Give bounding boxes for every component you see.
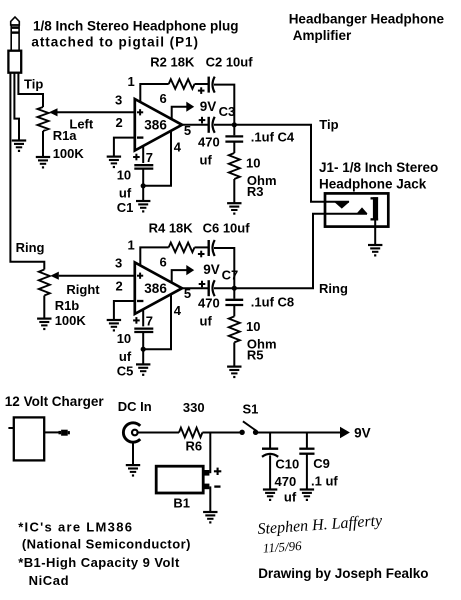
svg-text:attached to pigtail (P1): attached to pigtail (P1) bbox=[31, 35, 199, 50]
svg-text:470: 470 bbox=[198, 296, 220, 311]
resistor R6 330 bbox=[179, 428, 202, 438]
svg-text:4: 4 bbox=[174, 140, 182, 155]
svg-text:9V: 9V bbox=[203, 262, 220, 277]
svg-text:10: 10 bbox=[246, 319, 260, 334]
svg-text:R4 18K: R4 18K bbox=[149, 221, 194, 236]
wire shunt cap to resistor bbox=[233, 142, 235, 153]
wire resistor to cap bbox=[195, 246, 208, 248]
capacitor C2 10uf bbox=[209, 77, 215, 93]
wire battery positive branch bbox=[209, 433, 211, 474]
ground (R3) bbox=[227, 203, 241, 215]
wire DC In to R6 bbox=[137, 432, 179, 434]
wire to filter cap C10 bbox=[269, 433, 271, 448]
svg-text:uf: uf bbox=[284, 490, 297, 505]
wire pin 6 to 9V arrow bbox=[172, 107, 187, 120]
capacitor C4 .1uf bbox=[225, 136, 243, 141]
svg-text:J1- 1/8 Inch Stereo: J1- 1/8 Inch Stereo bbox=[319, 160, 438, 175]
wire wiper to pin 3 (Left) bbox=[58, 111, 135, 113]
svg-text:Amplifier: Amplifier bbox=[293, 28, 352, 43]
wire bypass cap to ground node bbox=[142, 169, 144, 201]
svg-text:.1uf C4: .1uf C4 bbox=[251, 130, 295, 145]
wire pin 4 to junction bbox=[143, 131, 171, 186]
svg-text:4: 4 bbox=[174, 303, 182, 318]
wire output cap to node bbox=[214, 287, 234, 289]
label battery + terminal bbox=[214, 468, 221, 475]
wire R5 to ground bbox=[233, 342, 235, 366]
svg-text:S1: S1 bbox=[243, 402, 259, 417]
wire Ring output to jack bbox=[234, 214, 367, 288]
svg-text:5: 5 bbox=[184, 286, 191, 301]
wire resistor to cap bbox=[195, 83, 208, 85]
svg-text:R3: R3 bbox=[247, 184, 264, 199]
wire R1a to ground bbox=[42, 131, 44, 157]
svg-text:386: 386 bbox=[144, 118, 167, 133]
ground (R5) bbox=[227, 367, 241, 379]
svg-text:6: 6 bbox=[160, 254, 167, 269]
wire jack sleeve to ground bbox=[374, 221, 376, 245]
svg-text:NiCad: NiCad bbox=[29, 573, 70, 588]
svg-text:Ring: Ring bbox=[16, 240, 45, 255]
wire plug tip to R1a bbox=[18, 73, 43, 107]
ground (jack) bbox=[368, 245, 382, 257]
svg-text:Tip: Tip bbox=[319, 117, 338, 132]
svg-text:uf: uf bbox=[200, 314, 213, 329]
svg-text:1: 1 bbox=[128, 237, 135, 252]
node output junction bbox=[232, 122, 237, 127]
label 470 uf (C7) bbox=[198, 296, 220, 329]
svg-text:1/8 Inch Stereo Headphone plug: 1/8 Inch Stereo Headphone plug bbox=[33, 18, 239, 33]
switch S1 bbox=[239, 421, 258, 435]
svg-text:C5: C5 bbox=[117, 363, 134, 378]
wire pin 6 to 9V arrow bbox=[172, 270, 187, 283]
capacitor C7 470uf bbox=[209, 280, 215, 296]
wire pin 5 output bbox=[182, 124, 208, 126]
ground (C10) bbox=[263, 490, 277, 502]
wire pin 4 to junction bbox=[143, 294, 171, 349]
R1b wiper arrow bbox=[50, 272, 59, 280]
svg-text:uf: uf bbox=[119, 349, 132, 364]
label R4 18K C6 10uf bbox=[149, 221, 251, 236]
wire wiper to pin 3 (Right) bbox=[59, 275, 135, 277]
svg-text:7: 7 bbox=[146, 313, 153, 328]
svg-text:2: 2 bbox=[116, 115, 123, 130]
wire feedback cap to output node bbox=[214, 248, 234, 288]
label 470 uf (C3) bbox=[198, 135, 220, 168]
svg-text:330: 330 bbox=[183, 400, 205, 415]
R1a wiper arrow bbox=[49, 108, 58, 116]
svg-text:R2 18K: R2 18K bbox=[150, 55, 195, 70]
wire Tip output to jack bbox=[234, 125, 349, 202]
svg-text:11/5/96: 11/5/96 bbox=[262, 538, 302, 556]
svg-text:Tip: Tip bbox=[24, 77, 43, 92]
wire feedback cap to output node bbox=[214, 85, 234, 125]
svg-text:(National Semiconductor): (National Semiconductor) bbox=[22, 537, 191, 552]
svg-text:Drawing by Joseph Fealko: Drawing by Joseph Fealko bbox=[258, 566, 428, 581]
wire pin 7 bbox=[142, 309, 144, 326]
jack sleeve contact bar bbox=[371, 197, 379, 220]
label R2 18K C2 10uf bbox=[150, 55, 253, 70]
svg-text:10: 10 bbox=[117, 168, 131, 183]
svg-text:100K: 100K bbox=[53, 146, 85, 161]
DC In connector J2 bbox=[123, 423, 140, 442]
capacitor C10 470uf bbox=[262, 449, 278, 457]
ground (bypass cap C5) bbox=[136, 364, 150, 376]
wire R3 to ground bbox=[233, 179, 235, 203]
resistor R3 10 Ohm bbox=[229, 153, 240, 179]
label C9 .1 uf bbox=[311, 456, 338, 489]
ground (R1a) bbox=[36, 157, 50, 169]
wire bypass cap to ground node bbox=[142, 332, 144, 364]
svg-text:R5: R5 bbox=[247, 347, 264, 362]
svg-text:.1 uf: .1 uf bbox=[311, 473, 338, 488]
jack ring contact bbox=[356, 207, 367, 213]
resistor R5 10 Ohm bbox=[229, 316, 240, 342]
resistor R4 18K bbox=[169, 243, 195, 253]
svg-text:386: 386 bbox=[144, 281, 167, 296]
op-amp U2 (LM386) right channel bbox=[135, 262, 182, 314]
label C10 470 uf bbox=[275, 456, 300, 504]
wire node to shunt cap bbox=[233, 288, 235, 299]
svg-text:*B1-High Capacity 9 Volt: *B1-High Capacity 9 Volt bbox=[18, 555, 180, 570]
svg-text:3: 3 bbox=[115, 93, 122, 108]
svg-text:7: 7 bbox=[146, 150, 153, 165]
svg-text:*IC's are LM386: *IC's are LM386 bbox=[18, 519, 133, 534]
svg-text:C9: C9 bbox=[313, 456, 330, 471]
label 10 uf C5 bbox=[117, 331, 134, 379]
headphone plug P1 (1/8 inch stereo) bbox=[8, 17, 21, 73]
svg-text:5: 5 bbox=[184, 123, 191, 138]
label 10 uf C1 bbox=[117, 168, 134, 216]
svg-text:uf: uf bbox=[200, 153, 213, 168]
svg-text:9V: 9V bbox=[200, 99, 217, 114]
ground (battery B1) bbox=[203, 512, 217, 524]
svg-text:R1b: R1b bbox=[55, 298, 80, 313]
wire shunt cap to resistor bbox=[233, 305, 235, 316]
9V supply arrow bbox=[186, 102, 194, 112]
wire R1b to ground bbox=[43, 296, 45, 319]
wire node to shunt cap bbox=[233, 125, 235, 136]
svg-text:Stephen H. Lafferty: Stephen H. Lafferty bbox=[257, 512, 384, 538]
svg-text:10: 10 bbox=[246, 156, 260, 171]
ground (DC In) bbox=[126, 465, 140, 477]
svg-text:C6 10uf: C6 10uf bbox=[203, 221, 251, 236]
svg-text:C2 10uf: C2 10uf bbox=[206, 55, 254, 70]
label 10 Ohm R5 bbox=[246, 319, 277, 363]
svg-text:C1: C1 bbox=[117, 200, 134, 215]
svg-text:R6: R6 bbox=[186, 438, 203, 453]
capacitor C1 10uf bypass bbox=[134, 165, 153, 168]
svg-text:9V: 9V bbox=[354, 425, 371, 440]
svg-text:C3: C3 bbox=[219, 104, 236, 119]
note battery type bbox=[18, 555, 180, 588]
wire pin 1 to feedback rail bbox=[140, 84, 168, 103]
battery B1 9V bbox=[156, 466, 209, 493]
svg-text:10: 10 bbox=[117, 331, 131, 346]
wire pin 1 to feedback rail bbox=[140, 247, 168, 266]
capacitor C6 10uf bbox=[209, 240, 215, 256]
node bypass/pin4 junction bbox=[141, 183, 146, 188]
svg-text:C7: C7 bbox=[222, 267, 239, 282]
jack tip contact bbox=[334, 202, 350, 209]
wire pin 7 bbox=[142, 146, 144, 163]
wire pin 2 to ground bbox=[114, 301, 135, 320]
ground (pin 2 U1) bbox=[107, 157, 121, 169]
svg-text:B1: B1 bbox=[173, 495, 190, 510]
node output junction bbox=[232, 286, 237, 291]
svg-text:DC In: DC In bbox=[118, 399, 152, 414]
svg-text:3: 3 bbox=[115, 256, 122, 271]
signature Stephen H. Lafferty bbox=[257, 512, 385, 556]
svg-text:R1a: R1a bbox=[53, 128, 78, 143]
label battery - terminal bbox=[214, 485, 220, 487]
svg-text:470: 470 bbox=[198, 135, 220, 150]
label schematic title bbox=[289, 12, 445, 43]
capacitor C3 470uf bbox=[209, 117, 215, 133]
ground (R1b) bbox=[37, 319, 51, 331]
capacitor C8 .1uf bbox=[225, 300, 243, 305]
wire switch to 9V arrow bbox=[256, 432, 341, 434]
wire R6 to switch S1 bbox=[202, 432, 239, 434]
charger box bbox=[14, 417, 44, 460]
ground (plug sleeve) bbox=[12, 141, 26, 153]
node bypass/pin4 junction bbox=[141, 347, 146, 352]
9V supply arrow bbox=[186, 265, 194, 275]
svg-text:.1uf C8: .1uf C8 bbox=[251, 295, 294, 310]
label 10 Ohm R3 bbox=[246, 156, 277, 200]
ground (bypass cap C1) bbox=[136, 201, 150, 213]
svg-text:Ring: Ring bbox=[319, 281, 348, 296]
wire battery negative to ground bbox=[209, 486, 211, 511]
wire output cap to node bbox=[214, 124, 234, 126]
charger left lead bbox=[8, 427, 13, 429]
svg-text:2: 2 bbox=[116, 278, 123, 293]
capacitor C9 .1uf bbox=[299, 449, 314, 454]
wire DC In to ground bbox=[132, 442, 134, 465]
ground (pin 2 U2) bbox=[107, 320, 121, 332]
capacitor C5 10uf bypass bbox=[134, 329, 153, 332]
wire C10 to ground bbox=[269, 455, 271, 489]
svg-text:470: 470 bbox=[275, 474, 297, 489]
wire C9 to ground bbox=[306, 454, 308, 490]
wire pin 2 to ground bbox=[114, 138, 135, 157]
resistor R2 18K bbox=[169, 79, 195, 89]
op-amp U1 (LM386) left channel bbox=[135, 99, 182, 151]
svg-text:12 Volt Charger: 12 Volt Charger bbox=[5, 394, 105, 409]
svg-text:C10: C10 bbox=[275, 456, 299, 471]
wire plug ring down to R1b bbox=[10, 73, 44, 270]
svg-text:Headphone Jack: Headphone Jack bbox=[319, 176, 427, 191]
wire to filter cap C9 bbox=[306, 433, 308, 448]
wire pin 5 output bbox=[182, 287, 208, 289]
svg-text:uf: uf bbox=[119, 186, 132, 201]
headphone jack J1 body bbox=[325, 193, 388, 226]
9V output arrow bbox=[340, 427, 350, 439]
svg-text:6: 6 bbox=[160, 91, 167, 106]
svg-text:Headbanger Headphone: Headbanger Headphone bbox=[289, 12, 445, 27]
note IC type bbox=[18, 519, 191, 551]
svg-text:Right: Right bbox=[66, 282, 100, 297]
svg-text:1: 1 bbox=[128, 74, 135, 89]
potentiometer R1b 100K bbox=[39, 270, 50, 296]
svg-text:100K: 100K bbox=[55, 313, 87, 328]
potentiometer R1a 100K bbox=[38, 107, 49, 131]
ground (C9) bbox=[300, 490, 314, 502]
charger output lead and plug bbox=[44, 430, 70, 436]
wire plug sleeve to ground bbox=[14, 73, 19, 141]
